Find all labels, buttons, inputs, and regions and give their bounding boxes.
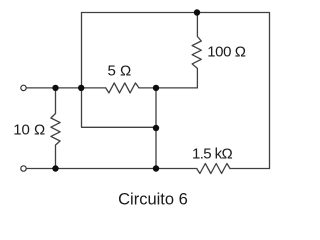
svg-text:Circuito 6: Circuito 6	[118, 191, 188, 209]
svg-text:1.5 kΩ: 1.5 kΩ	[192, 146, 233, 163]
svg-text:100 Ω: 100 Ω	[207, 44, 246, 61]
svg-text:10 Ω: 10 Ω	[13, 122, 45, 139]
svg-text:5 Ω: 5 Ω	[108, 63, 132, 80]
